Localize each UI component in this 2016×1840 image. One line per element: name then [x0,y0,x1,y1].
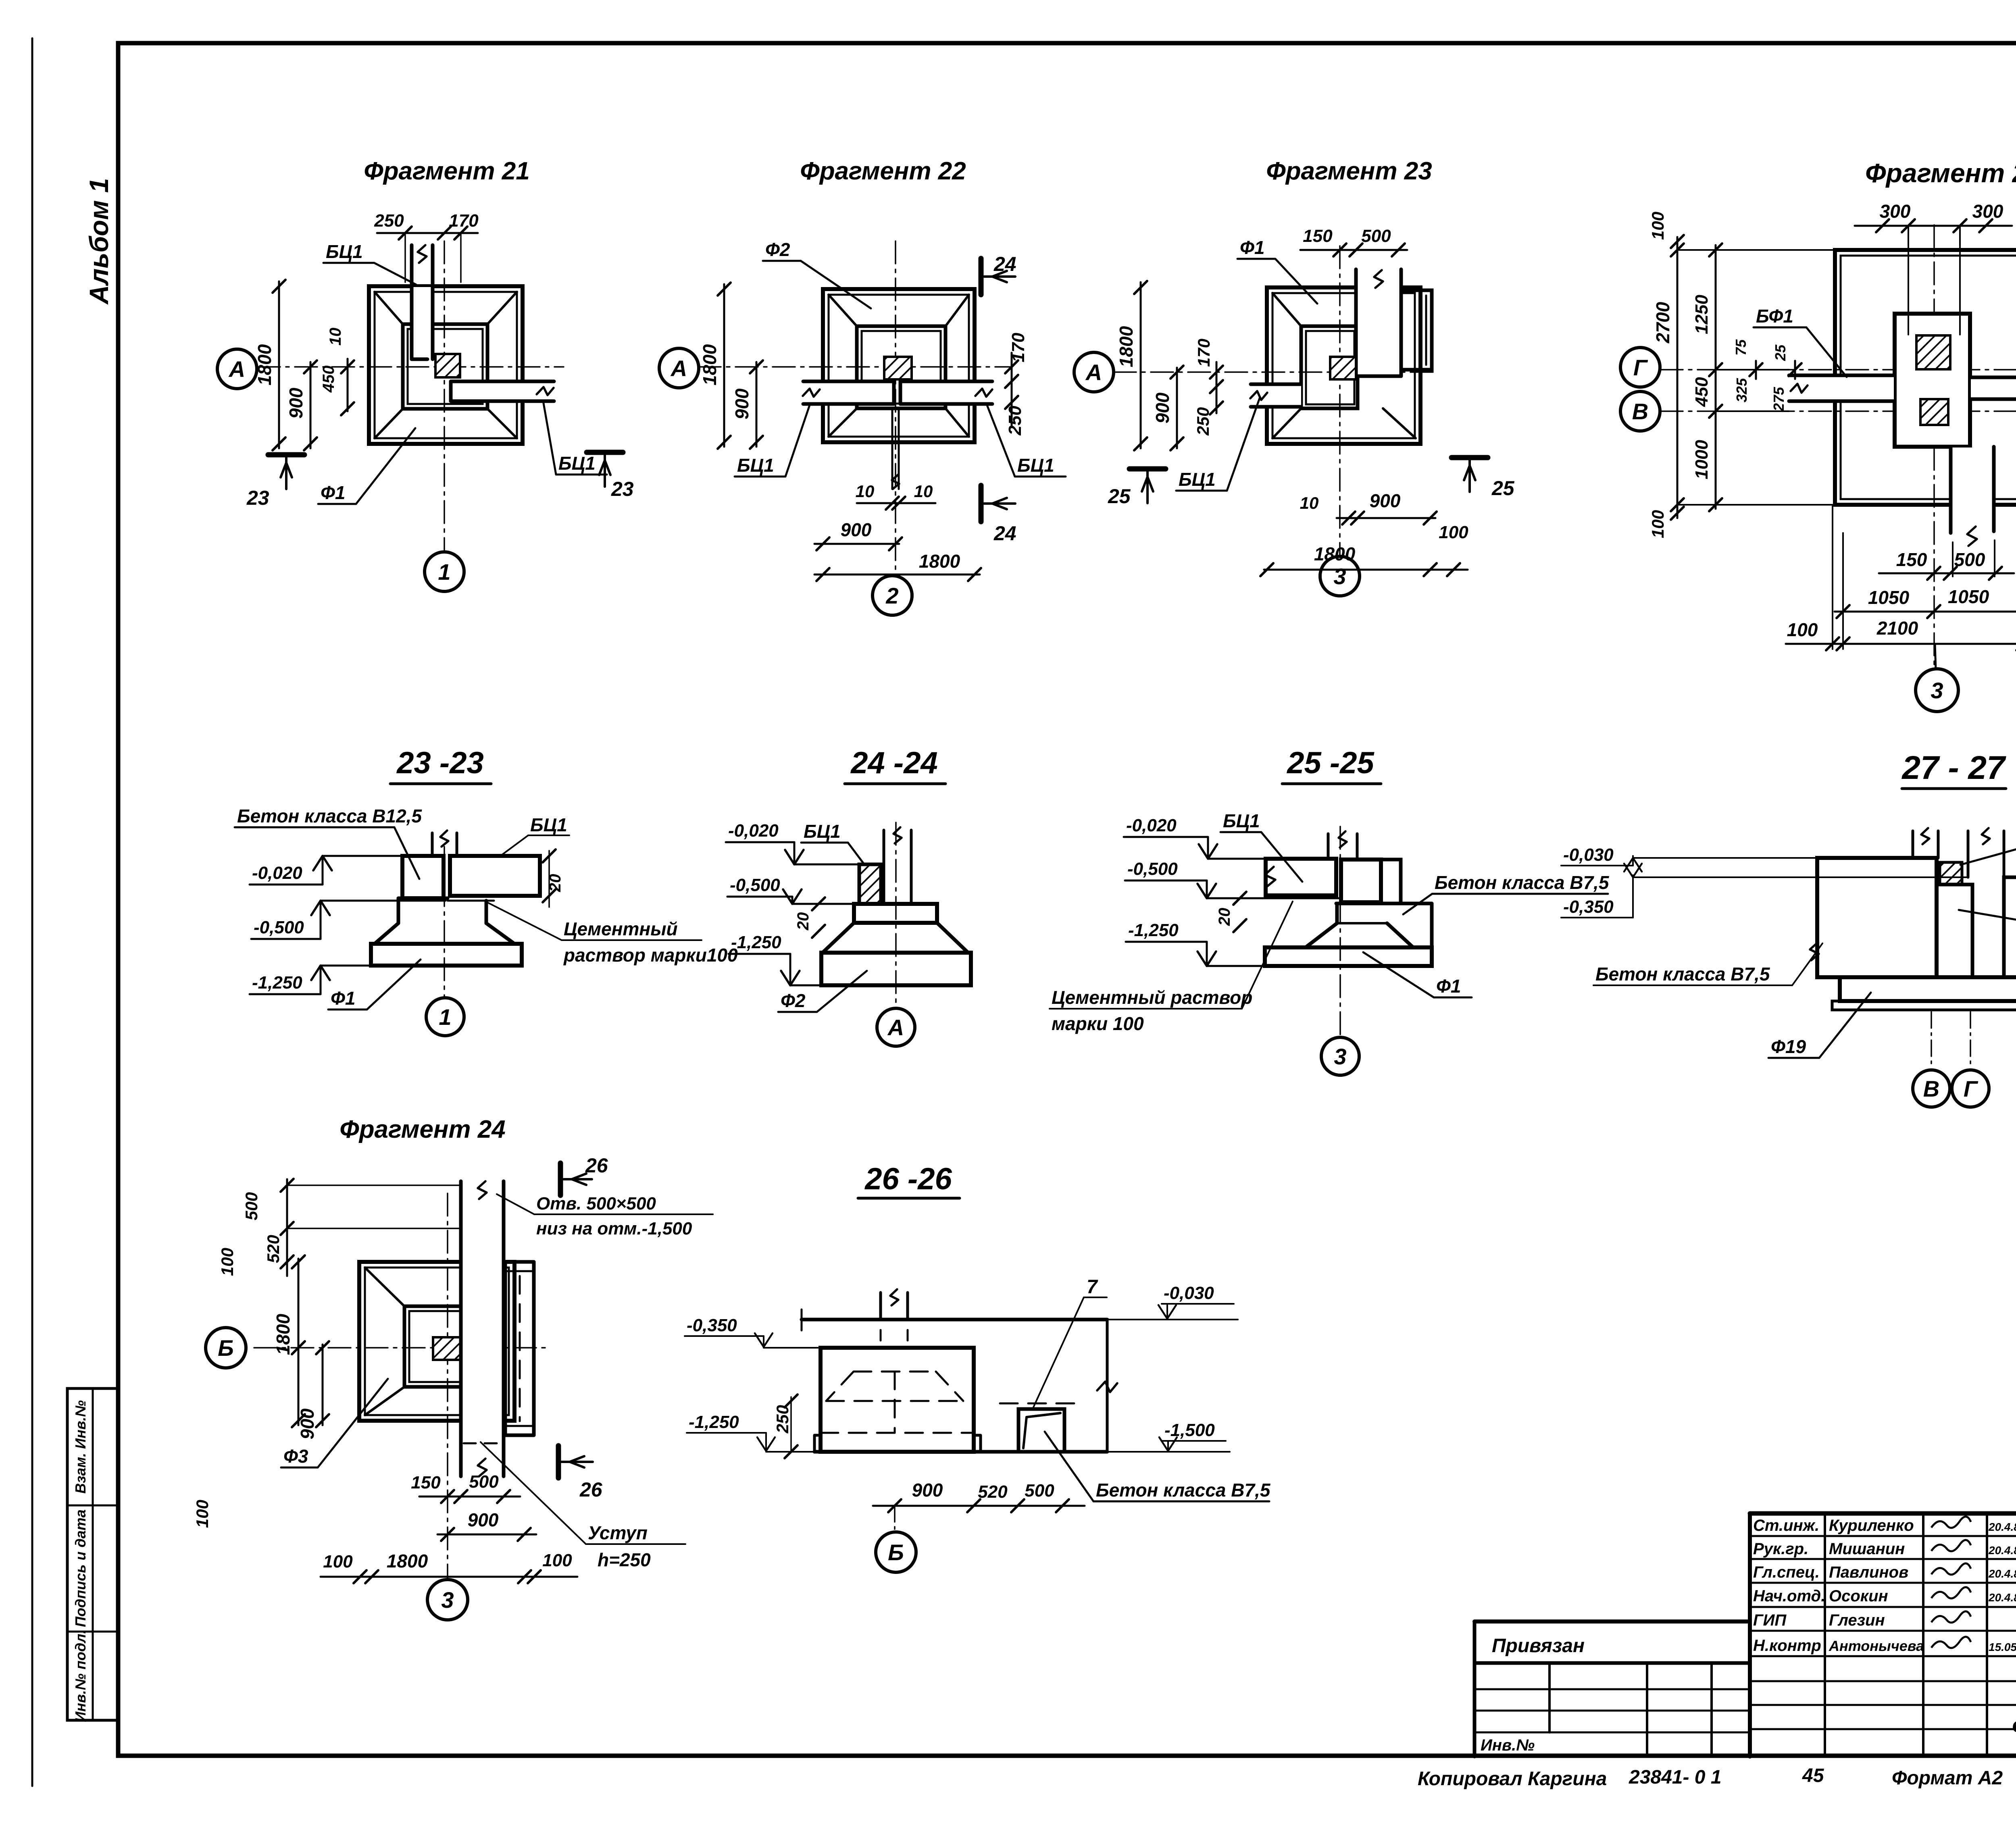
F21 column БЦ1 from top [412,287,432,359]
svg-text:Ф1: Ф1 [331,988,356,1009]
svg-text:100: 100 [1648,510,1667,538]
S24 axis circle A [877,1008,915,1046]
F23 axis horizontal (axis A) [1114,371,1437,373]
S25 pedestal flare [1306,903,1337,947]
F21 dim 900 vertical [310,362,312,448]
F23 column strip БЦ1 up [1357,270,1400,375]
svg-text:3: 3 [1333,564,1346,589]
svg-text:Фрагмент 23: Фрагмент 23 [1266,157,1432,185]
svg-text:h=250: h=250 [598,1549,651,1570]
svg-text:Павлинов: Павлинов [1829,1563,1908,1581]
svg-text:10: 10 [856,482,875,501]
F22 pedestal inner square [857,326,946,408]
F24 axis circle 3 [427,1580,468,1620]
paper trim line left [31,38,33,1786]
F22 axis horizontal (axis A) [698,366,1010,368]
S26 bottom line [814,1450,1107,1454]
svg-text:Г: Г [1964,1076,1979,1101]
svg-text:500: 500 [1361,226,1391,246]
S23 column upper [431,833,434,856]
F21 axis circle 1 [425,552,464,591]
F25 left dims 1250 450 1000 [1715,245,1717,509]
svg-text:300: 300 [1880,201,1911,222]
F25 bottom dims 150 500 [1879,572,2014,574]
S23 column block [402,856,444,898]
svg-text:25: 25 [1772,344,1789,361]
F25 central pedestal [1895,314,1969,446]
svg-text:900: 900 [285,387,306,418]
S25 axis circle 3 [1321,1037,1359,1075]
svg-text:БЦ1: БЦ1 [1179,469,1216,490]
svg-text:20: 20 [794,912,812,931]
F21 axis circle A [217,349,257,389]
svg-text:100: 100 [1787,619,1818,640]
svg-text:24: 24 [993,253,1016,275]
F22 dim 1800 bottom [814,574,980,576]
svg-text:-1,500: -1,500 [1164,1420,1215,1440]
S26 bottom dims 900 520 500 [873,1505,1085,1507]
svg-text:-1,250: -1,250 [689,1412,739,1432]
S26 right boundary [1106,1320,1109,1452]
svg-text:-0,020: -0,020 [252,863,302,883]
signature table [1748,1513,1752,1757]
svg-text:Взам. Инв.№: Взам. Инв.№ [72,1400,89,1494]
F24 section mark 26 bottom [556,1446,561,1478]
svg-text:-0,500: -0,500 [254,918,304,937]
S27 hatch БФ2 [1940,862,1962,885]
svg-text:150: 150 [1303,226,1333,246]
F24 axis horizontal (Б) [254,1347,546,1349]
svg-text:26: 26 [579,1478,603,1501]
F24 column hatch [433,1337,461,1360]
F25 axis circle 3 [1935,644,1936,669]
svg-text:БЦ1: БЦ1 [737,455,774,476]
F23 slope diagonals [1272,293,1301,326]
svg-text:250: 250 [1193,407,1212,436]
svg-text:Фрагмент 21: Фрагмент 21 [364,157,529,185]
svg-text:24 -24: 24 -24 [850,746,938,780]
svg-text:Антонычева: Антонычева [1829,1638,1924,1654]
F21 footing pedestal inner square [403,324,487,409]
F25 hatch column lower [1920,399,1948,425]
S27 right block [2004,877,2016,977]
svg-text:Куриленко: Куриленко [1829,1517,1914,1534]
F22 axis circle A [659,348,699,388]
svg-text:-0,350: -0,350 [1563,897,1614,917]
svg-text:БЦ1: БЦ1 [1223,810,1260,831]
F22 column hatch [884,357,912,379]
S26 dashed level [1000,1403,1085,1405]
privyazan table [1473,1621,1477,1757]
svg-text:100: 100 [218,1248,237,1276]
svg-text:500: 500 [1025,1481,1054,1501]
svg-text:450: 450 [1692,377,1712,407]
svg-text:275: 275 [1770,387,1787,412]
svg-text:А: А [1085,360,1102,385]
svg-text:Цементный: Цементный [564,918,678,939]
svg-text:10: 10 [327,328,344,346]
svg-text:А: А [887,1015,904,1040]
S23 mortar joint [448,900,494,902]
S25 upper column [1327,834,1330,859]
svg-text:520: 520 [978,1482,1008,1502]
S26 bottom feet [814,1435,821,1452]
svg-text:10: 10 [914,482,933,501]
svg-text:Инв.№ подл.: Инв.№ подл. [72,1630,89,1722]
svg-text:БЦ1: БЦ1 [804,821,841,842]
F22 dim 900 bottom [814,543,899,545]
S23 base slab [371,944,522,966]
S23 centerline [444,847,445,997]
svg-text:-1,250: -1,250 [1128,920,1179,940]
svg-text:марки 100: марки 100 [1052,1013,1144,1034]
F25 axis Г horizontal [1660,369,2016,370]
svg-text:1050: 1050 [1948,586,1989,607]
F24 left dim 1800 [298,1259,300,1425]
S27 base slab Ф19 [1840,977,2016,1001]
svg-text:Мишанин: Мишанин [1829,1540,1905,1558]
F22 dim 1800 vertical [723,284,725,447]
svg-text:Ф19: Ф19 [1771,1036,1806,1057]
F23 dim 1800 vertical [1140,282,1142,448]
F23 dim 900 vertical [1176,368,1178,448]
svg-text:45: 45 [1802,1765,1824,1786]
svg-text:520: 520 [264,1235,283,1263]
F24 pedestal inner square [404,1306,479,1387]
S27 upper column left [1912,831,1914,858]
F25 top dims 300 300 [1855,225,2012,227]
F22 beam БЦ1 left [804,382,894,404]
svg-text:Рук.гр.: Рук.гр. [1753,1540,1808,1558]
svg-text:-0,020: -0,020 [728,821,779,841]
svg-text:Ф2: Ф2 [765,239,790,260]
svg-text:23 -23: 23 -23 [396,746,484,780]
F24 bottom dims 150 500 [419,1496,520,1498]
F25 axis circle В [1620,391,1660,431]
svg-text:БЦ1: БЦ1 [558,453,596,474]
F22 section mark 24 bottom [979,485,984,522]
svg-text:-0,350: -0,350 [687,1315,737,1335]
S27 bottom plate [1832,1001,2016,1010]
svg-text:7: 7 [1087,1276,1098,1298]
F24 section mark 26 top [558,1163,563,1195]
svg-text:20.4.89: 20.4.89 [1988,1544,2016,1557]
svg-text:1800: 1800 [919,551,960,572]
svg-text:Глезин: Глезин [1829,1611,1885,1629]
svg-text:150: 150 [1896,549,1927,570]
svg-text:100: 100 [193,1500,212,1528]
svg-text:25 -25: 25 -25 [1286,746,1375,780]
svg-text:-0,500: -0,500 [730,875,780,895]
S26 buried pedestal dashed [854,1371,936,1373]
F21 top dims 250 170 [377,232,478,234]
svg-text:1800: 1800 [1116,326,1137,367]
svg-text:27 - 27: 27 - 27 [1901,749,2006,786]
svg-text:Ф1: Ф1 [1436,976,1461,997]
svg-text:Бетон класса В7,5: Бетон класса В7,5 [1435,872,1610,893]
svg-text:500: 500 [242,1192,261,1220]
svg-text:Ст.инж.: Ст.инж. [1753,1517,1819,1534]
S27 axis circle Г [1952,1070,1989,1107]
svg-text:БФ1: БФ1 [1756,306,1793,327]
F24 bottom dim 900 [437,1534,536,1536]
svg-text:3: 3 [1931,678,1943,703]
F25 left dims 100 2700 100 [1677,237,1679,518]
svg-text:15.05.89: 15.05.89 [1989,1641,2016,1653]
svg-text:24: 24 [993,522,1016,545]
F23 section mark 25 right [1452,455,1488,460]
svg-text:1250: 1250 [1692,295,1712,334]
svg-text:1800: 1800 [387,1551,428,1571]
F21 footing F1 outer square [369,286,523,444]
S26 step block 7 [1018,1409,1064,1452]
F23 bottom dims 1800 100 [1264,569,1468,571]
F24 footing outer square [359,1262,514,1421]
svg-text:250: 250 [374,211,404,231]
F24 bottom dims 100 1800 100 [321,1576,577,1578]
F25 dims 1050 1050 [1835,611,2016,613]
svg-text:500: 500 [1954,549,1985,570]
F23 top dims 150 500 [1300,249,1407,251]
svg-text:170: 170 [1008,333,1028,362]
S24 centerline [895,822,897,1007]
svg-text:Ф2: Ф2 [781,990,806,1011]
svg-text:900: 900 [841,519,872,540]
F23 axis circle A [1074,352,1114,392]
svg-text:-1,250: -1,250 [731,932,781,952]
svg-text:900: 900 [1152,392,1173,423]
svg-text:Н.контр: Н.контр [1753,1637,1821,1655]
S26 top surface line [802,1318,1107,1322]
svg-text:Копировал Каргина: Копировал Каргина [1418,1768,1607,1790]
S27 middle column [1937,885,1972,977]
F23 section mark 25 left [1129,466,1166,472]
svg-text:Подпись и дата: Подпись и дата [72,1509,89,1627]
S23 axis circle 1 [426,998,464,1036]
svg-text:100: 100 [323,1552,353,1571]
F23 bottom dims 10 900 [1337,517,1435,519]
svg-text:1: 1 [438,559,450,585]
svg-text:Цементный раствор: Цементный раствор [1052,987,1252,1008]
F23 axis vertical (axis 3) [1339,246,1341,556]
S27 axis circle В [1913,1070,1950,1107]
svg-text:23: 23 [246,487,269,509]
svg-text:Ф1: Ф1 [321,482,346,503]
F24 axis vertical (3) [447,1193,448,1579]
F21 dim 1800 vertical [278,281,280,448]
F22 dims 10 10 [857,502,935,504]
svg-text:170: 170 [1194,339,1213,367]
svg-text:Ф3: Ф3 [283,1446,308,1467]
svg-text:Альбом 1: Альбом 1 [84,178,114,305]
svg-text:20: 20 [1216,908,1233,926]
F22 section mark 24 top [979,258,984,295]
svg-text:Г: Г [1633,355,1648,380]
F22 dim 900 vertical [756,362,758,447]
F21 axis centerline horizontal (axis A) [258,366,564,368]
S25 base slab [1265,947,1432,966]
svg-text:325: 325 [1733,378,1750,402]
svg-text:20.4.89: 20.4.89 [1988,1567,2016,1580]
F21 column cross-section hatch (БЦ1) [435,354,460,377]
svg-text:В: В [1923,1076,1939,1101]
F25 hatch column БФ upper [1916,335,1950,369]
F24 left dim 900 [322,1345,324,1425]
S27 upper column right [1967,831,1970,877]
F25 slab Ф19 outer rect [1835,250,2016,505]
F22 stem below [891,408,893,489]
svg-text:Формат А2: Формат А2 [1892,1767,2003,1789]
F23 neighbour footing edge right [1401,290,1432,370]
svg-text:25: 25 [1108,485,1131,508]
F24 slope diagonals [365,1268,404,1306]
svg-text:-1,250: -1,250 [252,973,302,993]
svg-text:23841- 0 1: 23841- 0 1 [1629,1767,1722,1788]
svg-text:1050: 1050 [1868,587,1910,608]
svg-text:Ф1: Ф1 [1240,237,1265,258]
S25 column block [1341,860,1381,902]
F21 beam БЦ1 right [452,382,553,400]
svg-text:Фрагменты 21- 25: Фрагменты 21- 25 [2012,1714,2016,1739]
svg-text:20.4.89: 20.4.89 [1988,1521,2016,1533]
F23 beam left [1252,385,1301,406]
F25 dims 100 2100 100 [1786,643,2016,645]
svg-text:Отв. 500×500: Отв. 500×500 [536,1194,656,1213]
svg-text:26: 26 [585,1154,608,1177]
svg-text:Б: Б [218,1335,234,1361]
svg-text:А: А [228,356,245,382]
svg-text:Фрагмент 24: Фрагмент 24 [339,1116,505,1143]
S26 column stub [879,1293,882,1320]
svg-text:-0,030: -0,030 [1563,845,1614,865]
svg-text:В: В [1632,399,1648,424]
svg-text:250: 250 [773,1405,792,1434]
svg-text:-0,500: -0,500 [1127,859,1178,879]
svg-text:250: 250 [1005,406,1025,436]
F25 column strip down [1951,448,1993,533]
S24 column [883,830,885,904]
svg-text:Привязан: Привязан [1492,1635,1585,1657]
svg-text:23: 23 [611,478,634,500]
F21 section mark 23 right [587,450,623,455]
F24 axis circle Б [206,1328,246,1368]
F22 slope diagonals [829,295,857,326]
svg-text:10: 10 [1300,493,1319,512]
svg-text:Бетон класса В12,5: Бетон класса В12,5 [237,806,422,826]
svg-text:100: 100 [542,1551,572,1570]
F24 opening strip 500x500 [462,1182,503,1476]
svg-text:БЦ1: БЦ1 [1017,455,1054,476]
svg-text:БЦ1: БЦ1 [326,241,363,262]
F22 beam БЦ1 right [901,382,991,404]
svg-text:1: 1 [439,1004,451,1030]
svg-text:Инв.№: Инв.№ [1481,1736,1535,1754]
svg-text:150: 150 [411,1473,441,1492]
svg-text:Фрагмент 22: Фрагмент 22 [800,157,966,185]
S25 concrete fill right [1381,860,1401,903]
svg-text:1800: 1800 [1314,543,1356,564]
svg-text:ГИП: ГИП [1753,1611,1787,1629]
svg-text:Гл.спец.: Гл.спец. [1753,1563,1820,1581]
F22 footing F2 outer square [823,289,975,442]
S23 pedestal [375,898,398,944]
F24 neighbour footing right [504,1262,507,1435]
svg-text:Бетон класса В7,5: Бетон класса В7,5 [1595,964,1770,985]
svg-text:1800: 1800 [273,1313,294,1355]
svg-text:БЦ1: БЦ1 [530,814,567,835]
S26 main block [821,1348,974,1452]
svg-text:170: 170 [449,211,479,231]
left margin stamp table [67,1388,118,1720]
F22 dims 170 250 right [1011,353,1013,425]
S24 hatch block БЦ1 [859,864,881,904]
svg-text:Фрагмент 25: Фрагмент 25 [1865,158,2016,188]
F21 axis centerline vertical (axis 1) [444,241,445,552]
F23 pedestal inner square [1301,326,1358,408]
F25 beam БФ2 right [1971,378,2016,398]
F22 axis circle 2 [873,576,912,615]
F23 axis circle 3 [1320,556,1360,596]
F21 section mark 23 left [268,452,304,458]
S27 axis lines В Г [1931,1012,1932,1068]
svg-text:2700: 2700 [1652,302,1673,343]
F25 beam БФ1 left [1790,376,1894,400]
svg-text:-0,030: -0,030 [1164,1283,1214,1303]
F23 dims 170 250 [1216,362,1218,413]
svg-text:900: 900 [468,1509,499,1530]
F21 slope diagonals [375,292,403,324]
F25 axis В horizontal [1660,410,2016,412]
svg-text:-0,020: -0,020 [1126,816,1177,835]
svg-text:20.4.89: 20.4.89 [1988,1591,2016,1604]
svg-text:900: 900 [731,388,752,419]
svg-text:100: 100 [1439,522,1468,542]
S23 beam block БЦ1 [450,856,540,896]
svg-text:26 -26: 26 -26 [864,1162,952,1196]
svg-text:раствор марки100: раствор марки100 [563,945,738,966]
svg-text:2100: 2100 [1876,618,1918,639]
svg-text:75: 75 [1733,339,1749,356]
svg-text:3: 3 [1334,1044,1346,1069]
F25 axis vertical (axis 3) [1933,225,1935,667]
svg-text:500: 500 [469,1472,499,1492]
svg-text:Уступ: Уступ [588,1522,648,1543]
svg-text:1800: 1800 [699,344,720,385]
svg-text:Бетон класса В7,5: Бетон класса В7,5 [1096,1480,1271,1501]
F22 axis vertical (axis 2) [895,241,896,576]
svg-text:Б: Б [888,1540,904,1565]
S26 axis circle Б [894,1506,896,1531]
title block top edge [1750,1511,2016,1516]
svg-text:25: 25 [1491,477,1515,500]
svg-text:100: 100 [1648,212,1667,240]
S24 base slab [821,953,971,985]
svg-text:низ на отм.-1,500: низ на отм.-1,500 [536,1219,692,1238]
svg-text:900: 900 [1370,490,1401,511]
S27 big left block [1817,858,1937,977]
F23 column hatch [1330,357,1356,379]
F25 left dim extension lines [1677,249,1835,251]
svg-text:Осокин: Осокин [1829,1587,1888,1605]
S24 pedestal [854,904,937,923]
F25 axis circle Г [1620,348,1660,387]
S25 centerline [1339,826,1341,1036]
svg-text:300: 300 [1972,201,2004,222]
svg-text:900: 900 [912,1480,943,1501]
svg-text:2: 2 [885,583,898,608]
svg-text:450: 450 [320,366,337,393]
svg-text:А: А [670,356,687,381]
